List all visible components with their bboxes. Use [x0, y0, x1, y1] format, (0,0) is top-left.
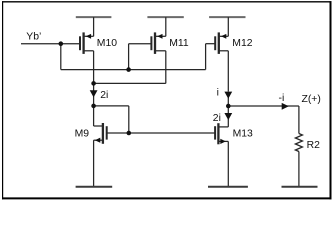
- node output (M12/M13 drains): [226, 104, 231, 109]
- wire 2i node loop top: [94, 105, 129, 107]
- wire M12 gate lead horizontal: [206, 43, 216, 45]
- node M11 gate junction: [126, 67, 131, 72]
- wire mirror gate line M9 to M13: [107, 132, 215, 134]
- transistor M11 (PMOS): [151, 17, 165, 83]
- transistor M13 (NMOS): [215, 119, 228, 187]
- resistor R2: [295, 134, 302, 152]
- VDD bar above M12: [209, 16, 245, 18]
- current arrow 2i into M13: [224, 113, 232, 120]
- current arrow 2i into M9: [90, 90, 98, 97]
- svg-text:M13: M13: [233, 129, 253, 140]
- wire R2 to ground: [298, 152, 300, 187]
- ground under M9: [76, 186, 113, 188]
- svg-text:2i: 2i: [213, 113, 221, 124]
- node M9/M13 gate junction: [127, 131, 132, 136]
- node Yb' junction: [59, 41, 64, 46]
- svg-text:2i: 2i: [100, 90, 108, 101]
- wire M11 gate lead horizontal: [129, 43, 152, 45]
- wire M10 drain down to 2i node: [93, 83, 95, 106]
- wire gate bus (Yb' to M12 gate riser): [61, 69, 206, 71]
- wire M10 drain to M11 drain: [94, 82, 166, 84]
- svg-text:M9: M9: [75, 129, 90, 140]
- wire Yb' input to M10 gate: [21, 43, 80, 45]
- transistor M12 (PMOS): [215, 17, 228, 91]
- svg-text:i: i: [217, 87, 219, 98]
- svg-text:Yb’: Yb’: [26, 32, 41, 43]
- wire M9 drain riser: [93, 106, 95, 126]
- wire M11 gate riser: [128, 44, 130, 70]
- transistor M10 (PMOS): [80, 17, 94, 83]
- ground under R2: [282, 186, 318, 188]
- wire output node to Z(+): [228, 105, 299, 107]
- VDD bar above M11: [147, 16, 183, 18]
- wire M12 drain to output node: [227, 98, 229, 114]
- wire M12 gate riser: [205, 44, 207, 70]
- node 2i (M9 drain): [91, 104, 96, 109]
- ground under M13: [208, 186, 248, 188]
- svg-text:M10: M10: [97, 38, 117, 49]
- VDD bar above M10: [76, 16, 112, 18]
- svg-text:M12: M12: [232, 38, 252, 49]
- current arrow i from M12: [224, 92, 232, 99]
- current arrow -i to Z(+): [282, 103, 289, 110]
- wire Yb' junction down to bus: [60, 44, 62, 70]
- node M10/M11 drain junction: [91, 81, 96, 86]
- svg-text:-i: -i: [279, 93, 285, 104]
- wire output down to R2: [298, 106, 300, 134]
- svg-text:Z(+): Z(+): [302, 94, 321, 105]
- wire 2i loop down to gate line: [128, 106, 130, 133]
- svg-text:R2: R2: [307, 140, 321, 151]
- svg-text:M11: M11: [169, 38, 189, 49]
- transistor M9 (NMOS, mirrored): [94, 123, 107, 187]
